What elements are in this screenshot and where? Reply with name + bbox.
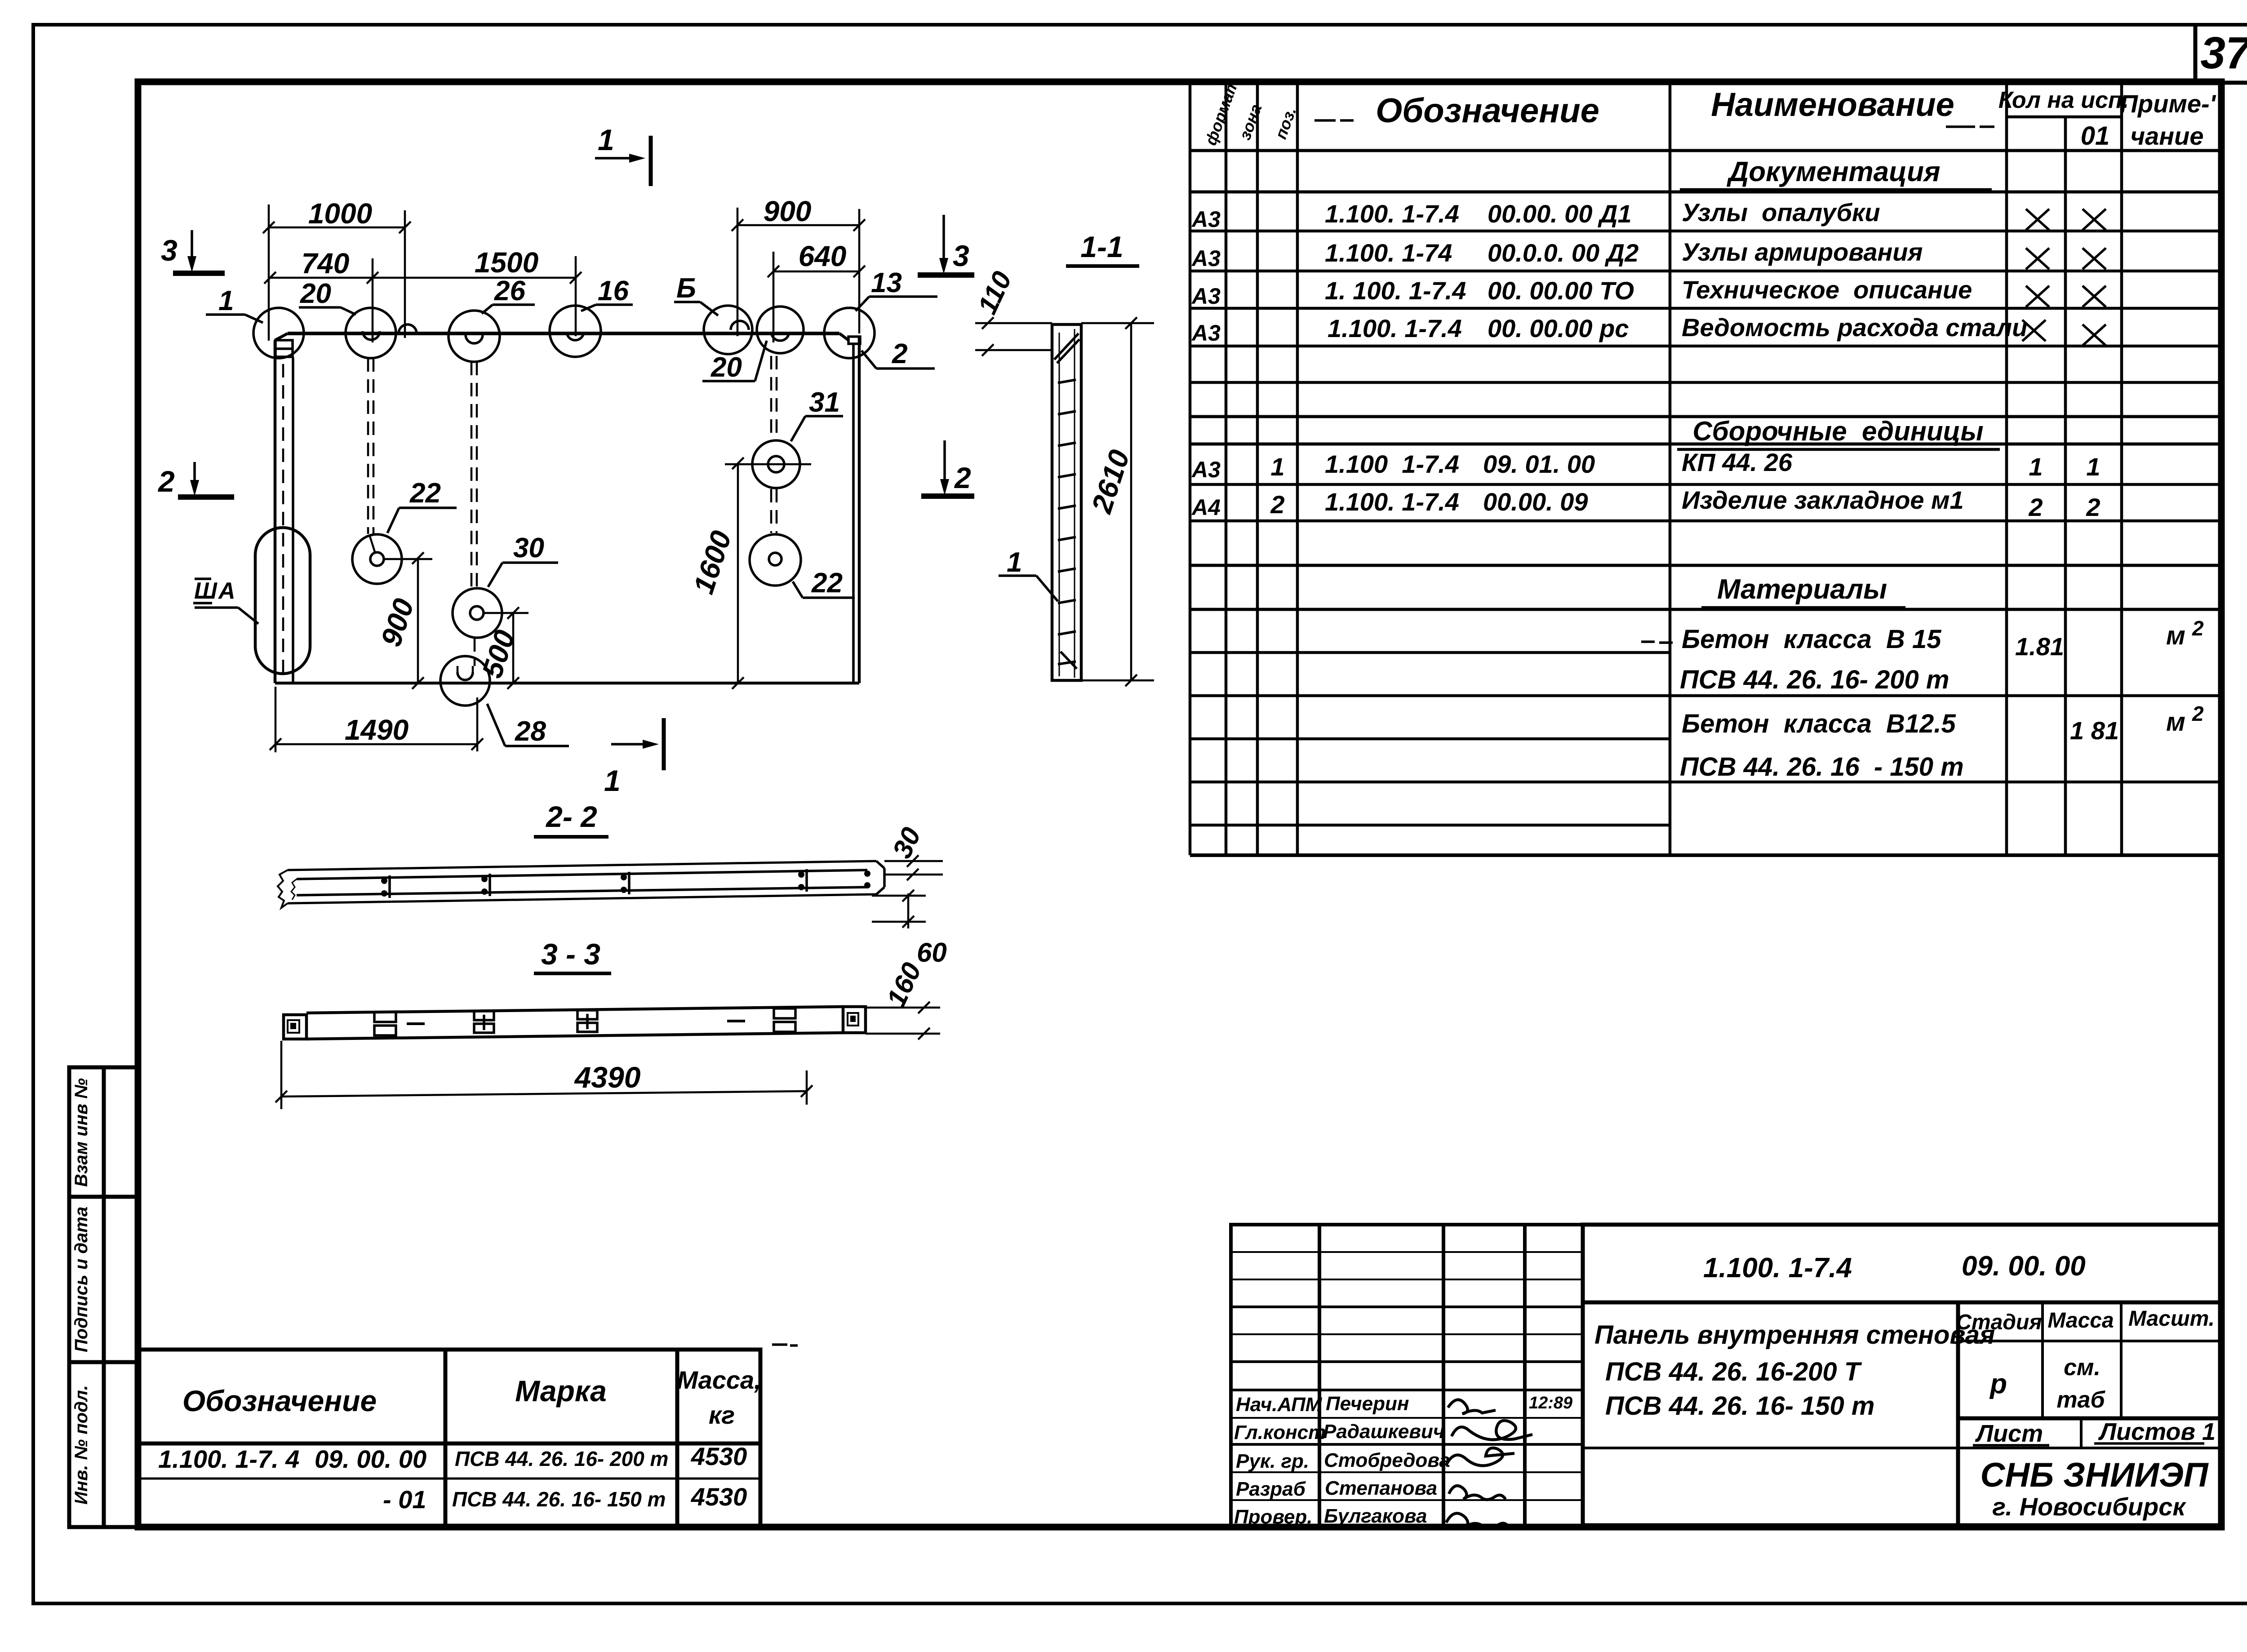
svg-text:Стобредова: Стобредова: [1324, 1449, 1450, 1471]
svg-text:чание: чание: [2131, 122, 2204, 150]
svg-text:2: 2: [2086, 493, 2100, 521]
specification table row: Документация header: [1680, 156, 1992, 190]
svg-text:1500: 1500: [475, 246, 538, 279]
anchor end circle 22 left: [352, 534, 402, 584]
svg-text:ПСВ 44. 26. 16- 150 т: ПСВ 44. 26. 16- 150 т: [452, 1488, 666, 1511]
svg-text:1.100. 1-7. 4: 1.100. 1-7. 4: [158, 1445, 299, 1473]
svg-text:00. 00.00 ТО: 00. 00.00 ТО: [1488, 276, 1634, 305]
handwritten signatures: [1446, 1400, 1532, 1529]
svg-text:Изделие закладное м1: Изделие закладное м1: [1682, 486, 1964, 514]
callout circle 13 (top-right corner): [824, 308, 875, 358]
svg-text:3 - 3: 3 - 3: [541, 937, 600, 971]
svg-text:4390: 4390: [574, 1061, 641, 1094]
anchor small circle in hole 30: [470, 606, 484, 620]
callout circle 16: [550, 306, 601, 357]
svg-text:22: 22: [409, 478, 441, 509]
callout circle 20: [346, 308, 396, 358]
svg-text:00.0.0. 00 Д2: 00.0.0. 00 Д2: [1488, 239, 1639, 267]
section 2-2 dim 30: [884, 855, 943, 880]
svg-text:1.100. 1-7.4: 1.100. 1-7.4: [1325, 488, 1459, 516]
svg-text:г. Новосибирск: г. Новосибирск: [1992, 1492, 2186, 1521]
svg-text:22: 22: [811, 568, 843, 599]
svg-text:Взам инв №: Взам инв №: [71, 1078, 91, 1187]
specification table header texts: [1201, 76, 2222, 151]
svg-text:Сборочные единицы: Сборочные единицы: [1692, 416, 1983, 446]
svg-text:Марка: Марка: [515, 1374, 607, 1408]
section 3-3 stud pairs: [374, 1008, 795, 1035]
svg-text:3: 3: [953, 239, 969, 272]
svg-text:00. 00.00 рс: 00. 00.00 рс: [1488, 314, 1629, 342]
panel top edge: [288, 332, 839, 335]
svg-text:ПСВ 44. 26. 16- 150 т: ПСВ 44. 26. 16- 150 т: [1605, 1391, 1874, 1421]
extension line through 28 down to 1490 dim: [476, 697, 479, 751]
section 2-2 dim 60: [872, 890, 926, 928]
svg-text:00.00. 09: 00.00. 09: [1483, 488, 1588, 516]
svg-text:Документация: Документация: [1726, 156, 1940, 187]
svg-text:Узлы опалубки: Узлы опалубки: [1682, 198, 1880, 226]
X marks for documentation rows: [2022, 209, 2106, 346]
row: ПСВ 44.26.16-200 т: [1680, 665, 1949, 694]
svg-text:1: 1: [218, 285, 234, 316]
svg-text:12:89: 12:89: [1529, 1394, 1572, 1412]
callout circle 1 (top-left corner): [253, 308, 304, 358]
bottom-left marks table grid: [138, 1350, 760, 1527]
dim 900 top: [732, 208, 865, 336]
section 3-3 dim 4390: [275, 1041, 813, 1109]
svg-text:20: 20: [711, 352, 742, 383]
hole circle 28: [440, 656, 490, 706]
bottom-left table texts: [158, 1345, 798, 1514]
section 3-3 dim 160: [866, 1002, 940, 1039]
svg-text:таб: таб: [2056, 1387, 2105, 1413]
small edge bump: [399, 324, 417, 333]
dim 1490: [270, 687, 483, 752]
svg-text:Ш: Ш: [194, 578, 218, 604]
svg-text:1490: 1490: [345, 714, 409, 746]
svg-text:Наименование: Наименование: [1711, 86, 1954, 123]
svg-text:Листов 1: Листов 1: [2098, 1418, 2216, 1445]
svg-text:13: 13: [871, 267, 902, 298]
svg-text:А3: А3: [1191, 457, 1221, 482]
svg-text:2- 2: 2- 2: [545, 800, 597, 833]
dim 740 / 1500: [264, 256, 582, 342]
svg-text:1000: 1000: [308, 197, 372, 230]
svg-text:Провер.: Провер.: [1234, 1506, 1312, 1528]
svg-text:1. 100. 1-7.4: 1. 100. 1-7.4: [1325, 276, 1466, 305]
panel left edge: [274, 340, 277, 683]
svg-text:ПСВ 44. 26. 16 - 150 т: ПСВ 44. 26. 16 - 150 т: [1680, 752, 1964, 782]
specification table grid: [1190, 82, 2221, 855]
title block stadia/massa/masht: [1956, 1307, 2216, 1447]
svg-text:1: 1: [604, 764, 621, 797]
svg-text:Нач.АПМ: Нач.АПМ: [1236, 1394, 1323, 1416]
title block organization: [1980, 1456, 2208, 1521]
top-left corner notch: [275, 340, 293, 357]
row: Ведомость расхода стали: [1191, 313, 2027, 346]
svg-text:26: 26: [494, 275, 525, 306]
svg-text:1.100 1-7.4: 1.100 1-7.4: [1325, 450, 1459, 478]
svg-text:1.100. 1-7.4: 1.100. 1-7.4: [1328, 314, 1462, 342]
sheet number box 37: [2195, 26, 2247, 84]
row: Бетон класса В15: [1641, 617, 2204, 661]
svg-text:Масса,: Масса,: [677, 1366, 761, 1394]
svg-text:1.81: 1.81: [2015, 632, 2064, 661]
row: Сборочные единицы header: [1677, 416, 2000, 449]
svg-text:Подпись и дата: Подпись и дата: [71, 1207, 91, 1352]
top-right corner notch: [848, 337, 860, 344]
svg-text:09. 00. 00: 09. 00. 00: [315, 1445, 426, 1473]
row: Изделие закладное м1: [1191, 486, 2100, 521]
svg-text:740: 740: [302, 247, 350, 280]
svg-text:2: 2: [2028, 493, 2043, 521]
svg-text:1: 1: [1007, 547, 1022, 578]
svg-text:ПСВ 44. 26. 16-200 Т: ПСВ 44. 26. 16-200 Т: [1605, 1357, 1862, 1386]
section 2-2 body: [278, 861, 884, 908]
svg-text:2: 2: [892, 338, 907, 369]
section 1-1 dim 110: [975, 317, 1052, 356]
title block name: [1594, 1320, 1995, 1421]
svg-text:4530: 4530: [691, 1442, 747, 1470]
svg-text:2: 2: [2192, 702, 2204, 725]
row: Узлы опалубки: [1191, 198, 1880, 232]
anchor hidden lines below circle 20: [368, 358, 373, 534]
svg-text:09. 00. 00: 09. 00. 00: [1962, 1251, 2086, 1282]
svg-text:Степанова: Степанова: [1325, 1477, 1437, 1499]
svg-text:ПСВ 44. 26. 16- 200 т: ПСВ 44. 26. 16- 200 т: [1680, 665, 1949, 694]
signature table grid: [1231, 1225, 1583, 1527]
panel bottom edge: [275, 682, 859, 685]
svg-text:- 01: - 01: [383, 1485, 426, 1514]
row: Узлы армирования: [1191, 238, 1923, 271]
svg-text:2: 2: [1270, 490, 1284, 519]
svg-text:Ведомость расхода стали: Ведомость расхода стали: [1682, 313, 2027, 342]
svg-text:Материалы: Материалы: [1717, 574, 1887, 605]
svg-text:Узлы армирования: Узлы армирования: [1682, 238, 1923, 266]
svg-text:1: 1: [1270, 453, 1284, 481]
svg-text:09. 01. 00: 09. 01. 00: [1483, 450, 1595, 478]
svg-text:1.100. 1-7.4: 1.100. 1-7.4: [1703, 1252, 1852, 1283]
dim 640: [768, 252, 865, 342]
svg-text:2: 2: [157, 465, 175, 498]
svg-text:20: 20: [300, 278, 331, 309]
section 2-2 internal studs: [390, 869, 807, 898]
svg-text:А3: А3: [1191, 284, 1221, 309]
callout circle Б: [704, 306, 752, 354]
svg-text:Панель внутренняя стеновая: Панель внутренняя стеновая: [1594, 1320, 1995, 1350]
svg-text:2: 2: [2192, 617, 2204, 640]
svg-text:900: 900: [764, 195, 812, 227]
left sidebar boxes: [69, 1067, 138, 1527]
svg-text:Масса: Масса: [2047, 1309, 2114, 1332]
svg-text:01: 01: [2081, 121, 2110, 151]
row: Бетон класса В12.5: [1682, 702, 2204, 745]
svg-text:1 81: 1 81: [2070, 716, 2119, 745]
anchor hidden lines below circle 26: [471, 362, 477, 666]
anchor hidden lines below circle 20 right: [771, 356, 777, 533]
svg-text:Б: Б: [676, 273, 696, 304]
svg-text:1: 1: [598, 123, 614, 156]
svg-text:3: 3: [161, 234, 178, 267]
svg-text:00.00. 00 Д1: 00.00. 00 Д1: [1488, 200, 1632, 228]
row: КП 44.26: [1191, 448, 2100, 482]
svg-text:4530: 4530: [691, 1483, 747, 1511]
svg-text:А3: А3: [1191, 320, 1221, 346]
callout circle 26: [449, 311, 500, 362]
svg-text:Лист: Лист: [1975, 1420, 2043, 1447]
svg-text:СНБ ЗНИИЭП: СНБ ЗНИИЭП: [1980, 1456, 2208, 1494]
section 1-1 dim 2610: [1081, 317, 1154, 686]
row: ПСВ 44.26.16 -150т: [1680, 752, 1964, 782]
svg-text:640: 640: [799, 240, 847, 272]
sidebar rotated labels: [71, 1078, 91, 1505]
section 1-1 body: [1052, 324, 1081, 680]
svg-text:кг: кг: [709, 1401, 735, 1429]
svg-text:Стадия: Стадия: [1956, 1310, 2042, 1334]
groove capsule (node A): [255, 528, 310, 674]
svg-text:Гл.конст: Гл.конст: [1234, 1421, 1326, 1443]
svg-text:А3: А3: [1191, 207, 1221, 232]
svg-text:Бетон класса В 15: Бетон класса В 15: [1682, 625, 1941, 654]
svg-text:Булгакова: Булгакова: [1324, 1505, 1427, 1527]
section 1-1 ladder rungs: [1054, 333, 1079, 669]
dim 500 vertical: [484, 607, 528, 689]
hole circle 22 right: [750, 534, 801, 586]
svg-text:31: 31: [809, 387, 840, 418]
svg-text:Рук. гр.: Рук. гр.: [1236, 1450, 1309, 1472]
svg-text:1.100. 1-74: 1.100. 1-74: [1325, 239, 1452, 267]
row: Техническое описание: [1191, 275, 1972, 309]
svg-text:37: 37: [2200, 28, 2247, 78]
svg-text:2: 2: [954, 461, 971, 494]
svg-text:КП 44. 26: КП 44. 26: [1682, 448, 1793, 476]
svg-text:Масшт.: Масшт.: [2128, 1307, 2215, 1331]
svg-text:А: А: [218, 578, 235, 604]
svg-text:Радашкевич: Радашкевич: [1323, 1421, 1445, 1443]
svg-text:30: 30: [513, 533, 544, 564]
svg-text:р: р: [1989, 1368, 2007, 1399]
title block designation: [1703, 1251, 2086, 1283]
svg-text:28: 28: [515, 716, 546, 747]
title block outer box: [1583, 1225, 2221, 1525]
svg-text:ПСВ 44. 26. 16- 200 т: ПСВ 44. 26. 16- 200 т: [455, 1447, 668, 1470]
svg-text:1.100. 1-7.4: 1.100. 1-7.4: [1325, 200, 1459, 228]
svg-text:А4: А4: [1191, 495, 1221, 520]
svg-text:1: 1: [2086, 453, 2100, 481]
svg-text:А3: А3: [1191, 246, 1221, 271]
svg-text:Разраб: Разраб: [1236, 1478, 1306, 1500]
section 3-3 body: [284, 1007, 866, 1039]
hole circle 30: [453, 588, 502, 638]
dim 1000: [263, 204, 411, 341]
svg-text:Приме-'': Приме-'': [2120, 89, 2222, 118]
svg-text:Обозначение: Обозначение: [182, 1384, 377, 1417]
svg-text:м: м: [2166, 621, 2185, 650]
panel right edge: [858, 337, 861, 683]
svg-text:1: 1: [2029, 453, 2043, 481]
svg-text:Техническое описание: Техническое описание: [1682, 275, 1972, 304]
svg-text:1-1: 1-1: [1080, 230, 1123, 263]
svg-text:Кол на исп.: Кол на исп.: [1998, 87, 2129, 113]
svg-text:Инв. № подл.: Инв. № подл.: [71, 1385, 91, 1505]
svg-text:Печерин: Печерин: [1326, 1393, 1409, 1415]
dim 900 vertical: [385, 552, 432, 689]
signature rows texts: [1234, 1393, 1572, 1528]
svg-text:Бетон класса В12.5: Бетон класса В12.5: [1682, 709, 1956, 738]
dim 1600 vertical: [732, 457, 744, 689]
svg-text:Обозначение: Обозначение: [1376, 92, 1599, 130]
svg-text:60: 60: [917, 937, 947, 968]
svg-text:16: 16: [598, 275, 629, 306]
svg-text:м: м: [2166, 707, 2185, 737]
panel left edge hidden line: [282, 364, 284, 676]
anchor U in hole 28: [457, 672, 473, 680]
hole circle 31: [752, 440, 800, 488]
svg-text:см.: см.: [2064, 1354, 2100, 1381]
row: Материалы header: [1701, 574, 1905, 608]
callout circle 20 right (anchor): [757, 306, 804, 353]
